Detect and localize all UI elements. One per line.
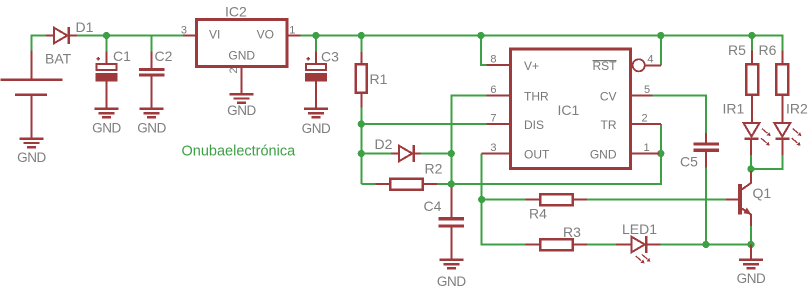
svg-text:VO: VO: [257, 27, 274, 41]
svg-text:IR2: IR2: [786, 101, 808, 117]
svg-text:C5: C5: [680, 154, 698, 170]
svg-text:C2: C2: [155, 48, 173, 64]
svg-text:3: 3: [490, 142, 496, 154]
svg-text:VI: VI: [209, 27, 220, 41]
svg-text:D2: D2: [375, 136, 393, 152]
svg-text:IC2: IC2: [225, 4, 247, 20]
svg-text:GND: GND: [228, 49, 255, 63]
svg-text:2: 2: [642, 112, 648, 124]
svg-text:Q1: Q1: [753, 185, 772, 201]
svg-text:IR1: IR1: [723, 101, 745, 117]
svg-text:IC1: IC1: [558, 102, 580, 118]
svg-text:Onubaelectrónica: Onubaelectrónica: [182, 144, 297, 160]
svg-text:GND: GND: [17, 150, 46, 165]
svg-text:GND: GND: [137, 121, 166, 136]
svg-text:GND: GND: [437, 274, 466, 289]
svg-text:5: 5: [644, 84, 650, 96]
svg-text:GND: GND: [227, 103, 256, 118]
svg-text:GND: GND: [590, 148, 617, 162]
svg-text:OUT: OUT: [524, 148, 550, 162]
svg-text:8: 8: [490, 53, 496, 65]
svg-text:CV: CV: [600, 90, 617, 104]
svg-text:R4: R4: [529, 206, 547, 222]
svg-text:LED1: LED1: [622, 221, 657, 237]
svg-text:4: 4: [647, 54, 653, 66]
svg-text:C4: C4: [424, 198, 442, 214]
svg-text:1: 1: [644, 142, 650, 154]
svg-text:3: 3: [181, 24, 187, 36]
svg-text:DIS: DIS: [524, 118, 544, 132]
svg-text:R2: R2: [425, 161, 443, 177]
svg-text:R1: R1: [370, 71, 388, 87]
svg-text:C1: C1: [113, 48, 131, 64]
svg-text:GND: GND: [737, 271, 766, 286]
svg-text:D1: D1: [76, 19, 94, 35]
svg-text:TR: TR: [601, 118, 617, 132]
svg-text:2: 2: [228, 67, 240, 73]
svg-text:7: 7: [490, 112, 496, 124]
svg-text:C3: C3: [321, 49, 339, 65]
svg-text:THR: THR: [524, 90, 549, 104]
svg-text:6: 6: [490, 84, 496, 96]
svg-text:R5: R5: [728, 42, 746, 58]
svg-text:1: 1: [289, 24, 295, 36]
svg-text:GND: GND: [302, 121, 331, 136]
svg-text:GND: GND: [92, 121, 121, 136]
svg-text:R3: R3: [563, 224, 581, 240]
svg-text:BAT: BAT: [45, 51, 72, 67]
svg-text:V+: V+: [524, 59, 539, 73]
svg-text:R6: R6: [759, 42, 777, 58]
